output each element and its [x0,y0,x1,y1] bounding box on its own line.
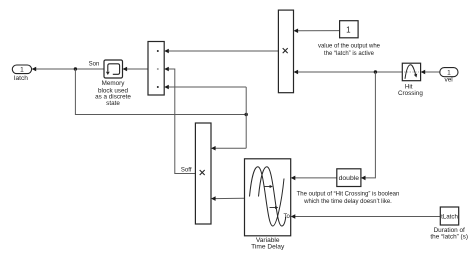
inport vel [440,68,458,84]
variable time delay block VTD (flipped) [245,159,291,236]
svg-text:1: 1 [346,26,351,35]
svg-text:double: double [339,175,360,182]
constant block tLatch [440,207,458,225]
wire to product P2 input 1 [211,146,246,151]
svg-text:the “latch” (s): the “latch” (s) [430,233,468,240]
label of memory block [95,80,131,107]
wire VTD output to product P2 input 2 [211,196,245,201]
wire junction down and right to lower junction [75,69,246,115]
svg-text:tLatch: tLatch [441,214,458,221]
wire memory output to outport latch [32,67,104,72]
wire vel inport to hit crossing input [421,70,440,75]
constant block value 1 [340,21,359,38]
data type conversion block double [337,169,361,187]
hit crossing block (flipped) [402,63,420,80]
wire hit crossing output to product P1 input 2 [294,70,403,75]
annotation hit crossing boolean [297,191,400,205]
node junction on latch wire [74,67,77,70]
memory block Memory [104,60,123,78]
svg-text:1: 1 [20,66,24,73]
svg-text:Crossing: Crossing [398,90,423,97]
wire tLatch output to VTD input To [291,214,441,219]
svg-text:Time Delay: Time Delay [251,244,285,251]
svg-text:state: state [106,100,120,107]
label of variable time delay [251,237,285,251]
label of hit crossing [398,84,423,98]
svg-text:The output of “Hit Crossing” i: The output of “Hit Crossing” is boolean [297,191,400,197]
wire constant 1 to product P1 input 1 [294,28,340,33]
wire switch output to memory input [123,67,149,72]
svg-text:which the time delay doesn’t l: which the time delay doesn’t like. [303,199,392,205]
wire double output to VTD input u [291,176,337,181]
svg-text:Memory: Memory [102,80,126,87]
svg-text:vel: vel [444,76,453,83]
annotation duration of latch [430,227,468,241]
switch Switch (flipped) [148,42,164,96]
outport latch [12,65,31,82]
svg-text:Son: Son [89,62,100,68]
svg-text:value of the output whe: value of the output whe [318,43,381,49]
product P2 (flipped, bottom) [195,123,211,224]
wire junction down to double input [361,72,376,180]
wire to switch input 3 [164,85,246,90]
svg-text:Soff: Soff [181,167,192,173]
svg-text:latch: latch [14,75,28,82]
wire product P1 output to switch input 1 [164,49,278,54]
svg-text:the “latch” is active: the “latch” is active [324,51,375,57]
annotation value of the output [318,43,381,57]
svg-text:To: To [283,214,290,220]
node lower junction [245,113,248,116]
wire junction vertical segment [245,87,247,148]
product P1 (flipped, top) [278,10,293,93]
wire Soff: product P2 output to switch input 2 [164,67,195,174]
node junction on hit crossing wire [374,70,377,73]
